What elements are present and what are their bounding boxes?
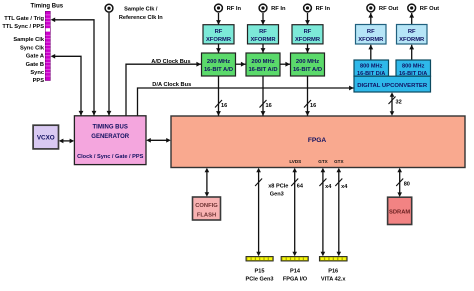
- digital upconverter U10: [354, 76, 431, 92]
- A/D converter U6: [246, 53, 280, 76]
- P14 connector: [281, 257, 308, 262]
- svg-text:D/A Clock Bus: D/A Clock Bus: [152, 82, 191, 88]
- RF transformer T5: [397, 25, 428, 45]
- wire D/A 1 to xformr T4: [370, 45, 372, 60]
- wire RF In 3 to xformr 3: [307, 13, 309, 25]
- svg-text:RF In: RF In: [271, 6, 286, 12]
- A/D clock bus label: [151, 59, 190, 65]
- timing bus pin labels: [2, 16, 44, 84]
- svg-text:XFORMR: XFORMR: [399, 37, 425, 43]
- SDRAM memory U12: [388, 197, 412, 224]
- svg-text:Reference Clk In: Reference Clk In: [119, 15, 163, 21]
- wire FPGA to upconverter bus 32: [389, 92, 402, 116]
- svg-text:Gen3: Gen3: [270, 192, 284, 198]
- svg-text:RF: RF: [259, 29, 267, 35]
- FPGA LVDS port label: [289, 159, 301, 164]
- svg-text:TTL Sync / PPS: TTL Sync / PPS: [2, 24, 44, 30]
- RF transformer T4: [356, 25, 387, 45]
- FPGA U4: [171, 116, 465, 168]
- RF Out connector 1: [367, 4, 398, 12]
- wire timing bus generator to FPGA: [146, 138, 171, 143]
- svg-text:16: 16: [266, 103, 272, 109]
- wire D/A 2 to xformr T5: [411, 45, 413, 60]
- svg-text:GTX: GTX: [334, 159, 344, 164]
- wire xformr 3 to A/D 3: [307, 44, 309, 53]
- wire VCXO to timing bus generator: [59, 139, 74, 144]
- svg-text:RF Out: RF Out: [420, 6, 439, 12]
- svg-text:Clock / Sync / Gate / PPS: Clock / Sync / Gate / PPS: [77, 154, 143, 160]
- svg-text:Sync Clk: Sync Clk: [20, 45, 45, 51]
- svg-text:x4: x4: [341, 184, 348, 190]
- svg-text:16: 16: [221, 103, 227, 109]
- svg-text:x4: x4: [325, 184, 332, 190]
- svg-text:Gate A: Gate A: [26, 54, 44, 60]
- RF In connector 1: [215, 4, 242, 12]
- svg-text:GENERATOR: GENERATOR: [91, 134, 129, 140]
- svg-text:XFORMR: XFORMR: [358, 37, 384, 43]
- D/A clock bus wire: [138, 88, 354, 116]
- svg-text:PCIe Gen3: PCIe Gen3: [246, 277, 274, 283]
- timing bus title label: [31, 4, 64, 10]
- wire A/D 1 to FPGA bus 16: [215, 76, 227, 116]
- svg-text:RF: RF: [367, 29, 375, 35]
- svg-text:SDRAM: SDRAM: [389, 209, 410, 215]
- wire xformr to RF Out 2: [411, 13, 413, 25]
- D/A converter U9: [396, 60, 431, 77]
- P15 label: [246, 269, 274, 283]
- svg-text:TTL Gate / Trig: TTL Gate / Trig: [4, 16, 44, 22]
- svg-text:Gate B: Gate B: [26, 62, 44, 68]
- svg-text:16-BIT A/D: 16-BIT A/D: [293, 67, 322, 73]
- svg-text:x8 PCIe: x8 PCIe: [268, 184, 288, 190]
- svg-text:RF: RF: [215, 29, 223, 35]
- svg-text:RF Out: RF Out: [379, 6, 398, 12]
- svg-text:64: 64: [297, 184, 304, 190]
- svg-text:800 MHz: 800 MHz: [402, 64, 425, 70]
- wire A/D 2 to FPGA bus 16: [260, 76, 272, 116]
- VCXO U2: [33, 125, 58, 149]
- svg-text:VITA 42.x: VITA 42.x: [321, 277, 346, 283]
- D/A clock bus label: [152, 82, 191, 88]
- wire FPGA to P15 x8 PCIe Gen3: [255, 168, 288, 257]
- svg-text:A/D Clock Bus: A/D Clock Bus: [151, 59, 190, 65]
- RF In connector 3: [304, 4, 331, 12]
- svg-text:XFORMR: XFORMR: [206, 37, 232, 43]
- P16 label: [321, 269, 346, 283]
- FPGA GTX port label 2: [334, 159, 344, 164]
- svg-text:16: 16: [310, 103, 316, 109]
- svg-text:P15: P15: [255, 269, 265, 275]
- wire xformr 1 to A/D 1: [218, 44, 220, 53]
- RF transformer T1: [203, 25, 234, 44]
- wire xformr to RF Out 1: [370, 13, 372, 25]
- svg-text:Timing Bus: Timing Bus: [31, 4, 64, 10]
- svg-text:FPGA I/O: FPGA I/O: [283, 277, 308, 283]
- wire FPGA GTX to P16 x4 lane 2: [335, 168, 348, 257]
- svg-text:RF In: RF In: [316, 6, 331, 12]
- A/D clock bus wire: [126, 64, 201, 115]
- wire Gate A to timing bus generator: [51, 54, 81, 116]
- RF In connector 2: [259, 4, 286, 12]
- svg-text:16-BIT A/D: 16-BIT A/D: [204, 67, 233, 73]
- svg-text:XFORMR: XFORMR: [295, 37, 321, 43]
- wire FPGA to SDRAM bus 80: [396, 168, 410, 197]
- svg-text:VCXO: VCXO: [37, 135, 55, 142]
- svg-text:CONFIG: CONFIG: [195, 203, 218, 209]
- svg-text:Sync: Sync: [30, 70, 44, 76]
- svg-text:PPS: PPS: [33, 78, 45, 84]
- P14 label: [283, 269, 308, 283]
- A/D clock chain wire 2-3: [280, 63, 290, 65]
- RF transformer T3: [292, 25, 323, 44]
- wire FPGA LVDS to P14 bus 64: [291, 168, 304, 257]
- svg-text:16-BIT A/D: 16-BIT A/D: [248, 67, 277, 73]
- svg-text:Sample Clk /: Sample Clk /: [124, 7, 158, 13]
- FPGA GTX port label 1: [318, 159, 328, 164]
- wire xformr 2 to A/D 2: [262, 44, 264, 53]
- sample clk / reference clk label: [119, 7, 163, 21]
- svg-text:DIGITAL UPCONVERTER: DIGITAL UPCONVERTER: [357, 83, 428, 89]
- RF transformer T2: [248, 25, 279, 44]
- timing bus connector J1: [45, 11, 50, 80]
- svg-text:200 MHz: 200 MHz: [207, 59, 230, 65]
- svg-text:200 MHz: 200 MHz: [251, 59, 274, 65]
- timing bus generator U3: [74, 116, 146, 165]
- A/D clock chain wire 1-2: [236, 63, 246, 65]
- sample clk / reference clk in connector: [105, 4, 113, 12]
- svg-text:LVDS: LVDS: [289, 159, 301, 164]
- wire FPGA to config flash: [205, 168, 210, 197]
- svg-text:P16: P16: [328, 269, 338, 275]
- svg-text:TIMING BUS: TIMING BUS: [93, 124, 128, 130]
- wire A/D 3 to FPGA bus 16: [304, 76, 316, 116]
- A/D converter U5: [202, 53, 236, 76]
- A/D converter U7: [291, 53, 325, 76]
- svg-text:FPGA: FPGA: [308, 137, 327, 144]
- wire reference clk to timing bus generator: [108, 13, 110, 116]
- svg-text:GTX: GTX: [318, 159, 328, 164]
- svg-text:RF: RF: [408, 29, 416, 35]
- wire RF In 1 to xformr 1: [218, 13, 220, 25]
- svg-text:P14: P14: [290, 269, 301, 275]
- config flash memory U11: [193, 197, 221, 220]
- wire RF In 2 to xformr 2: [262, 13, 264, 25]
- svg-text:200 MHz: 200 MHz: [296, 59, 319, 65]
- svg-text:Sample Clk: Sample Clk: [13, 37, 44, 43]
- P15 connector: [246, 257, 273, 262]
- P16 connector: [319, 257, 347, 262]
- svg-text:32: 32: [396, 100, 402, 106]
- RF Out connector 2: [408, 4, 439, 12]
- wire TTL Gate/Trig to timing bus generator: [51, 18, 94, 116]
- svg-text:FLASH: FLASH: [197, 212, 216, 218]
- D/A converter U8: [354, 60, 389, 77]
- svg-text:XFORMR: XFORMR: [250, 37, 276, 43]
- svg-text:RF: RF: [304, 29, 312, 35]
- wire FPGA GTX to P16 x4 lane 1: [319, 168, 332, 257]
- svg-text:RF In: RF In: [227, 6, 242, 12]
- svg-text:800 MHz: 800 MHz: [360, 64, 383, 70]
- svg-text:80: 80: [404, 182, 410, 188]
